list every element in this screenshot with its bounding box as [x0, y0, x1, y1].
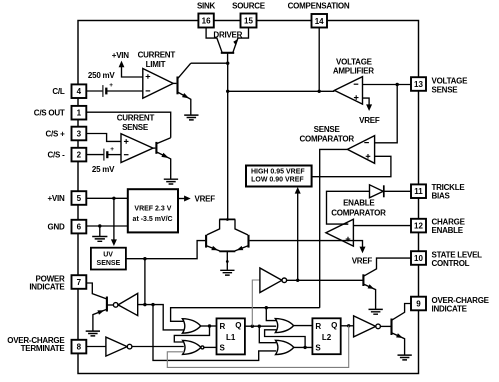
pin 16 label SINK	[197, 2, 216, 11]
pin 8	[72, 340, 87, 354]
wire OR4 output to L2 S	[294, 346, 313, 348]
svg-text:LOW 0.90 VREF: LOW 0.90 VREF	[251, 176, 304, 183]
svg-text:BIAS: BIAS	[432, 192, 451, 201]
wire VREF output arrow	[178, 196, 191, 202]
node feedback/inverter junction	[151, 303, 154, 306]
wire OR1 output zigzag to NOR2 top input	[174, 326, 209, 342]
op-amp voltage amplifier U1	[334, 77, 362, 105]
wire OR3 upper input from sense-out branch	[266, 308, 277, 321]
ground (pin 6)	[92, 226, 107, 241]
block VREF 2.3 V regulator	[128, 189, 178, 232]
svg-text:11: 11	[414, 187, 423, 196]
svg-text:R: R	[220, 322, 226, 331]
svg-text:SENSE: SENSE	[97, 260, 121, 267]
wire inverter to Q8 base	[380, 325, 390, 327]
svg-text:VOLTAGE: VOLTAGE	[336, 57, 373, 66]
svg-text:R: R	[315, 322, 321, 331]
wire Q1 collector to driver node	[191, 62, 228, 64]
wire threshold select arrow from buffer output	[295, 187, 301, 280]
svg-text:SENSE: SENSE	[122, 123, 149, 132]
wire pin 13 to voltage amp - input	[363, 84, 412, 86]
label VREF (voltage amp)	[359, 116, 380, 125]
latch L1	[217, 318, 245, 354]
pin 6 label GND	[47, 222, 65, 231]
wire UV sense output to butterfly left base	[126, 241, 205, 259]
wire pin 2 to battery	[86, 154, 103, 156]
svg-text:C/S +: C/S +	[46, 129, 66, 138]
svg-text:9: 9	[416, 300, 421, 309]
wire NOR2 output to L1 S	[204, 346, 217, 348]
pin 11 label TRICKLE BIAS	[432, 183, 466, 201]
node driver/current-limit junction	[226, 62, 229, 65]
wire pin5 branch down arrow into UV sense	[111, 198, 117, 246]
svg-text:7: 7	[77, 278, 82, 287]
pin 14 label COMPENSATION	[288, 2, 350, 11]
svg-text:10: 10	[414, 254, 423, 263]
wire compensation horizontal to voltage amp output	[228, 90, 335, 92]
wire L1 Q output to OR3 middle input	[245, 325, 276, 327]
wire pin 5 to VREF block	[86, 197, 128, 199]
pin 7	[72, 275, 87, 289]
svg-text:14: 14	[315, 17, 324, 26]
svg-text:ENABLE: ENABLE	[343, 199, 375, 208]
svg-text:Q: Q	[331, 321, 337, 330]
svg-text:INDICATE: INDICATE	[432, 304, 468, 313]
svg-text:+VIN: +VIN	[47, 194, 64, 203]
wire sense comparator + feedback to threshold box	[312, 156, 391, 176]
svg-text:SENSE: SENSE	[314, 125, 341, 134]
wire voltage amp + input to VREF arrow	[363, 98, 373, 111]
pin 7 label POWER INDICATE	[29, 275, 65, 292]
wire sense-out line into OR1 upper input	[171, 308, 320, 322]
svg-text:5: 5	[77, 194, 82, 203]
wire pin 4 to battery	[86, 90, 102, 92]
battery 250 mV offset	[103, 82, 113, 97]
svg-text:12: 12	[414, 222, 423, 231]
pin 14	[312, 14, 328, 28]
svg-text:+: +	[109, 82, 113, 89]
wire +VIN arrow to current limit + input	[119, 61, 143, 77]
svg-text:SOURCE: SOURCE	[232, 2, 266, 11]
svg-text:Q: Q	[235, 321, 241, 330]
pin 1 label C/S OUT	[34, 109, 65, 118]
pin 8 label OVER-CHARGE TERMINATE	[7, 336, 65, 353]
transistor Q8 (over-charge indicate)	[392, 304, 412, 356]
transistor Q5 (power indicate PNP)	[93, 297, 114, 332]
svg-text:COMPARATOR: COMPARATOR	[300, 134, 355, 143]
block UV SENSE	[91, 248, 126, 270]
svg-text:COMPARATOR: COMPARATOR	[331, 209, 386, 218]
pin 12	[411, 219, 426, 233]
svg-text:8: 8	[77, 343, 82, 352]
svg-text:SINK: SINK	[197, 2, 216, 11]
inverter U7 (over-charge indicate)	[354, 316, 381, 337]
or-gate OR1	[182, 319, 200, 334]
node pin 5 branch to UV sense	[112, 197, 115, 200]
pin 5 label +VIN	[47, 194, 64, 203]
node Q branch to state buffer	[251, 325, 254, 328]
wire L2 Q to inverter	[341, 325, 354, 327]
wire buffer output to Q7 base	[287, 279, 363, 281]
label SENSE COMPARATOR	[300, 125, 355, 144]
nor-gate NOR2	[183, 340, 204, 354]
svg-text:2: 2	[77, 151, 82, 160]
pin 3 label C/S +	[46, 129, 66, 138]
svg-text:25 mV: 25 mV	[92, 165, 115, 174]
svg-text:250 mV: 250 mV	[88, 71, 115, 80]
svg-text:S: S	[220, 344, 226, 353]
svg-text:AMPLIFIER: AMPLIFIER	[333, 67, 374, 76]
svg-text:L1: L1	[226, 333, 236, 342]
buffer U5 (over-charge terminate)	[106, 337, 132, 356]
wire diode anode loop to enable comparator - input	[327, 191, 370, 224]
ground (Q7 emitter)	[369, 309, 383, 314]
wire diode to pin 11	[385, 190, 412, 192]
wire inverter input net	[138, 305, 185, 330]
pin 16	[198, 14, 213, 28]
svg-text:CURRENT: CURRENT	[138, 50, 176, 59]
diode D1 (trickle bias)	[370, 185, 384, 198]
or-gate OR3	[275, 319, 293, 333]
ground (current limit emitter)	[184, 115, 198, 120]
node pin 13 branch	[396, 83, 399, 86]
svg-text:6: 6	[77, 223, 82, 232]
node UV/inverter junction	[143, 303, 146, 306]
svg-text:DRIVER: DRIVER	[213, 30, 242, 39]
svg-text:S: S	[315, 344, 321, 353]
transistor Q7 (state level control)	[363, 258, 411, 309]
wire pin 12 to enable comparator	[353, 225, 411, 227]
node L2 Q branch	[347, 324, 350, 327]
battery 25 mV offset	[104, 146, 114, 161]
svg-text:VOLTAGE: VOLTAGE	[432, 76, 469, 85]
pin 10 label STATE LEVEL CONTROL	[432, 250, 483, 268]
svg-text:1: 1	[77, 109, 82, 118]
wire Q branch down to OR4 upper input	[259, 326, 276, 343]
pin 1	[72, 106, 87, 120]
wire pin13 branch down to sense comparator - input	[375, 85, 398, 143]
pin 15 label SOURCE	[232, 2, 266, 11]
node pin14 / VA output junction	[318, 90, 321, 93]
wire OR3 output to L2 R	[294, 325, 313, 327]
node compensation junction on driver vertical	[226, 90, 229, 93]
pin 13 label VOLTAGE SENSE	[432, 76, 469, 94]
comparator sense U2	[347, 136, 374, 164]
svg-text:C/S OUT: C/S OUT	[34, 109, 65, 118]
wire UV branch down to power-indicate net	[144, 259, 146, 305]
inverter U4 (power indicate)	[113, 293, 137, 315]
svg-text:INDICATE: INDICATE	[29, 282, 65, 291]
pin 4 label C/L	[52, 87, 65, 96]
svg-text:CURRENT: CURRENT	[117, 113, 155, 122]
label VREF (regulator output)	[195, 195, 216, 204]
svg-text:GND: GND	[47, 222, 65, 231]
pin 5	[72, 191, 87, 205]
svg-text:CONTROL: CONTROL	[432, 259, 470, 268]
or-gate OR4	[276, 340, 294, 354]
node Q branch to OR4	[258, 325, 261, 328]
svg-text:VREF: VREF	[359, 116, 380, 125]
label +VIN (current limit supply)	[112, 51, 129, 60]
node butterfly emitter stem	[226, 260, 229, 263]
svg-text:SENSE: SENSE	[432, 85, 459, 94]
svg-text:VREF: VREF	[352, 256, 373, 265]
label CURRENT SENSE	[117, 113, 155, 132]
svg-text:TERMINATE: TERMINATE	[21, 344, 66, 353]
ground (power indicate PNP emitter)	[86, 331, 100, 336]
svg-text:16: 16	[202, 17, 211, 26]
transistor pair Q3/Q4 (state drive)	[206, 219, 248, 270]
svg-text:13: 13	[414, 80, 423, 89]
label VOLTAGE AMPLIFIER	[333, 57, 374, 75]
node pin 6 ground branch	[98, 224, 101, 227]
svg-text:+: +	[110, 146, 114, 153]
pin 3	[72, 127, 87, 141]
op-amp current limit	[143, 69, 173, 99]
wire buffer output to NOR2 input	[132, 346, 184, 348]
node S line branch to OR3 loop	[303, 346, 306, 349]
svg-text:ENABLE: ENABLE	[432, 226, 464, 235]
wire L2 Q feedback to NOR2 bottom input (gray)	[167, 326, 348, 368]
ground (current sense emitter)	[164, 179, 178, 184]
transistor Q2 (current sense output)	[153, 138, 171, 179]
svg-text:C/L: C/L	[52, 87, 65, 96]
comparator enable U3	[326, 219, 354, 246]
svg-text:at -3.5 mV/C: at -3.5 mV/C	[133, 216, 173, 223]
pin 11	[411, 184, 426, 198]
label 25 mV	[92, 165, 115, 174]
label VREF (enable comparator)	[352, 256, 373, 265]
svg-text:UV: UV	[103, 251, 113, 258]
pin 4	[72, 84, 87, 98]
svg-text:LIMIT: LIMIT	[146, 60, 166, 69]
svg-text:3: 3	[77, 130, 82, 139]
pin 10	[411, 251, 426, 265]
wire pin 3 to current sense + input	[86, 134, 121, 142]
driver transistor (DRIVER)	[206, 28, 248, 64]
ground (butterfly emitters)	[220, 270, 234, 275]
node buffer output branch to threshold arrow	[296, 279, 299, 282]
pin 2	[72, 148, 87, 162]
transistor Q1 (current limit output)	[173, 63, 191, 115]
svg-text:HIGH 0.95 VREF: HIGH 0.95 VREF	[251, 169, 305, 176]
wire state buffer input (gray)	[252, 280, 260, 326]
pin 13	[411, 77, 426, 91]
wire OR1 output to L1 R	[201, 325, 217, 327]
label ENABLE COMPARATOR	[331, 199, 386, 218]
wire battery to current limit - input	[107, 90, 143, 92]
node UV sense branch	[143, 257, 146, 260]
latch L2	[312, 318, 340, 354]
svg-text:L2: L2	[322, 333, 332, 342]
wire pin 7 to PNP collector	[86, 283, 107, 299]
node OR1 output branch	[208, 324, 211, 327]
op-amp current sense	[121, 134, 153, 163]
svg-text:C/S -: C/S -	[48, 150, 66, 159]
label CURRENT LIMIT	[138, 50, 176, 69]
pin 12 label CHARGE ENABLE	[432, 218, 466, 236]
wire sense comparator output down to logic	[320, 149, 348, 307]
ground (Q8 emitter)	[398, 355, 412, 360]
wire driver net vertical to compensation and butterfly	[227, 63, 229, 219]
wire feedback from OR4 net down-left	[153, 305, 276, 361]
node OR3 branch on sense-out line	[265, 306, 268, 309]
wire pin 14 vertical	[318, 28, 320, 92]
wire enable comparator + input line to VREF arrow	[250, 241, 366, 254]
svg-text:15: 15	[244, 17, 253, 26]
svg-text:VREF: VREF	[195, 195, 216, 204]
pin 2 label C/S -	[48, 150, 66, 159]
svg-text:+VIN: +VIN	[112, 51, 129, 60]
block threshold HIGH/LOW VREF	[246, 166, 312, 187]
svg-text:VREF 2.3 V: VREF 2.3 V	[134, 206, 171, 213]
wire pin 1 to Q2 collector	[86, 112, 170, 138]
pin 9	[411, 297, 426, 311]
pin 6	[72, 220, 87, 234]
wire battery to current sense - input	[108, 154, 121, 156]
wire OR3 lower input loop from S net	[265, 330, 306, 348]
pin 15	[241, 14, 257, 28]
buffer U6 (state level)	[260, 268, 287, 293]
label 250 mV	[88, 71, 115, 80]
wire pin 8 to buffer	[86, 346, 106, 348]
wire pin 6 to VREF block	[86, 225, 128, 227]
node butterfly top junction	[226, 218, 229, 221]
pin 9 label OVER-CHARGE INDICATE	[432, 296, 490, 314]
svg-text:COMPENSATION: COMPENSATION	[288, 2, 350, 11]
svg-text:4: 4	[77, 87, 82, 96]
IC boundary border	[78, 21, 419, 374]
